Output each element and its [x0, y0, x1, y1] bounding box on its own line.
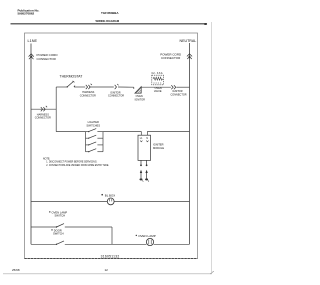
svg-text:1. DISCONNECT POWER BEFORE SER: 1. DISCONNECT POWER BEFORE SERVICING.: [46, 162, 97, 164]
diagram border frame: [25, 33, 198, 259]
spark electrode left: [140, 170, 144, 182]
oven valve label: [154, 87, 162, 93]
svg-text:NEUTRAL: NEUTRAL: [180, 39, 197, 43]
wire lighter output to module L1: [103, 132, 141, 136]
svg-text:N: N: [146, 138, 148, 140]
svg-text:CONNECTOR: CONNECTOR: [171, 93, 187, 96]
power cord connector left: [29, 54, 34, 59]
page right edge scan line: [211, 22, 213, 272]
svg-text:SWITCH: SWITCH: [55, 214, 66, 218]
harness connector (branch) label: [35, 113, 51, 119]
harness connector (branch): [41, 106, 47, 111]
ignitor connector (right): [171, 85, 176, 89]
svg-text:5995270862: 5995270862: [18, 11, 35, 15]
BL box lamp: [107, 198, 114, 205]
note block: [43, 157, 110, 166]
wire door switch line: [31, 243, 190, 245]
oven valve box: [152, 75, 164, 85]
lighter switches bank: [86, 132, 104, 152]
svg-text:L1: L1: [140, 138, 143, 140]
svg-text:CONNECTOR: CONNECTOR: [108, 94, 124, 97]
svg-text:CONNECTOR: CONNECTOR: [35, 116, 51, 119]
spark electrode right: [145, 170, 149, 182]
thermostat switch: [67, 81, 76, 88]
svg-text:VALVE: VALVE: [154, 90, 162, 93]
power cord connector right: [187, 54, 192, 59]
svg-text:2. CONNECTORS ARE VIEWED FROM: 2. CONNECTORS ARE VIEWED FROM WIRE ENTRY…: [46, 164, 109, 167]
svg-text:SWITCHES: SWITCHES: [86, 123, 100, 127]
svg-text:SWITCH: SWITCH: [53, 232, 64, 236]
svg-text:12: 12: [105, 268, 109, 272]
svg-text:LIGHTER: LIGHTER: [88, 120, 99, 124]
svg-text:WIRING DIAGRAM: WIRING DIAGRAM: [96, 19, 120, 23]
svg-text:25/98: 25/98: [12, 268, 20, 272]
svg-text:3.2 - 3.6 A: 3.2 - 3.6 A: [151, 72, 163, 75]
igniter module label: [153, 143, 164, 150]
svg-text:316051132: 316051132: [101, 255, 120, 259]
ignitor connector (right) label: [171, 90, 187, 96]
lighter switches label: [86, 120, 100, 127]
svg-text:CONNECTOR: CONNECTOR: [37, 57, 57, 61]
svg-text:TGF356BBA: TGF356BBA: [101, 11, 119, 15]
wire switch junction vertical: [111, 227, 113, 244]
wire module N to neutral: [147, 132, 189, 136]
svg-text:L1NE: L1NE: [28, 39, 38, 43]
power cord connector left label: [37, 53, 59, 61]
module pin marks: [140, 141, 148, 142]
svg-text:CONNECTOR: CONNECTOR: [80, 94, 96, 97]
svg-text:CONNECTOR: CONNECTOR: [161, 56, 181, 60]
wire lamp line: [31, 200, 190, 202]
oven lamp label: [136, 234, 156, 238]
igniter module box: [138, 135, 151, 160]
wire left L1 rail: [30, 44, 32, 245]
svg-text:IGNITER: IGNITER: [153, 143, 164, 147]
svg-text:BL BOX: BL BOX: [105, 193, 115, 197]
svg-text:NOTE:: NOTE:: [43, 157, 51, 160]
publication number text: [18, 9, 40, 16]
svg-text:IGNITOR: IGNITOR: [135, 98, 146, 101]
footer rule: [3, 273, 212, 275]
door switch blade: [56, 241, 64, 245]
oven ignitor label: [135, 95, 146, 101]
svg-text:OVEN LAMP: OVEN LAMP: [138, 234, 156, 238]
oven ignitor: [134, 87, 141, 94]
wire oven lamp switch line: [31, 226, 112, 228]
header rule: [11, 23, 208, 25]
svg-text:MODULE: MODULE: [153, 146, 164, 150]
ignitor connector (mid): [115, 84, 119, 89]
BL box lamp label: [101, 193, 115, 197]
svg-text:THERMOSTAT: THERMOSTAT: [60, 75, 83, 79]
oven lamp switch label: [49, 210, 67, 217]
oven lamp: [146, 238, 153, 245]
harness connector (thermostat line) label: [80, 91, 96, 97]
wire harness branch line: [31, 108, 56, 110]
wire lighter switch feed: [56, 131, 85, 133]
lighter switch blades: [88, 129, 96, 153]
wire thermostat line: [56, 86, 189, 88]
wire right neutral rail: [189, 43, 191, 244]
oven lamp switch blade: [56, 224, 64, 228]
wire vertical from thermostat line to lighter feed: [55, 87, 57, 132]
module bottom leads with terminals: [140, 160, 147, 166]
harness connector (thermostat line): [86, 84, 92, 89]
door switch label: [51, 229, 63, 236]
ignitor connector (mid) label: [108, 91, 124, 97]
power cord connector right label: [160, 53, 182, 61]
